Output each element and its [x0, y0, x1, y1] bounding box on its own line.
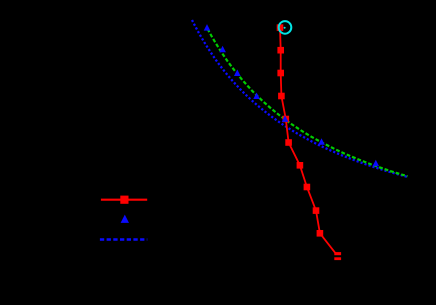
bottom axis line (black, crosses last marker) [54, 255, 408, 257]
legend red line sample [101, 196, 147, 204]
cyan highlight circle [279, 21, 292, 34]
green dashed curve (theory 1) [208, 29, 408, 177]
blue triangle markers [204, 24, 379, 166]
red data series line [280, 28, 338, 256]
legend blue triangle sample [121, 215, 129, 223]
cyan center dot [284, 27, 286, 29]
red square markers [277, 24, 341, 260]
blue dotted curve (theory 2) [192, 20, 408, 177]
legend blue dashed line sample [100, 238, 147, 240]
